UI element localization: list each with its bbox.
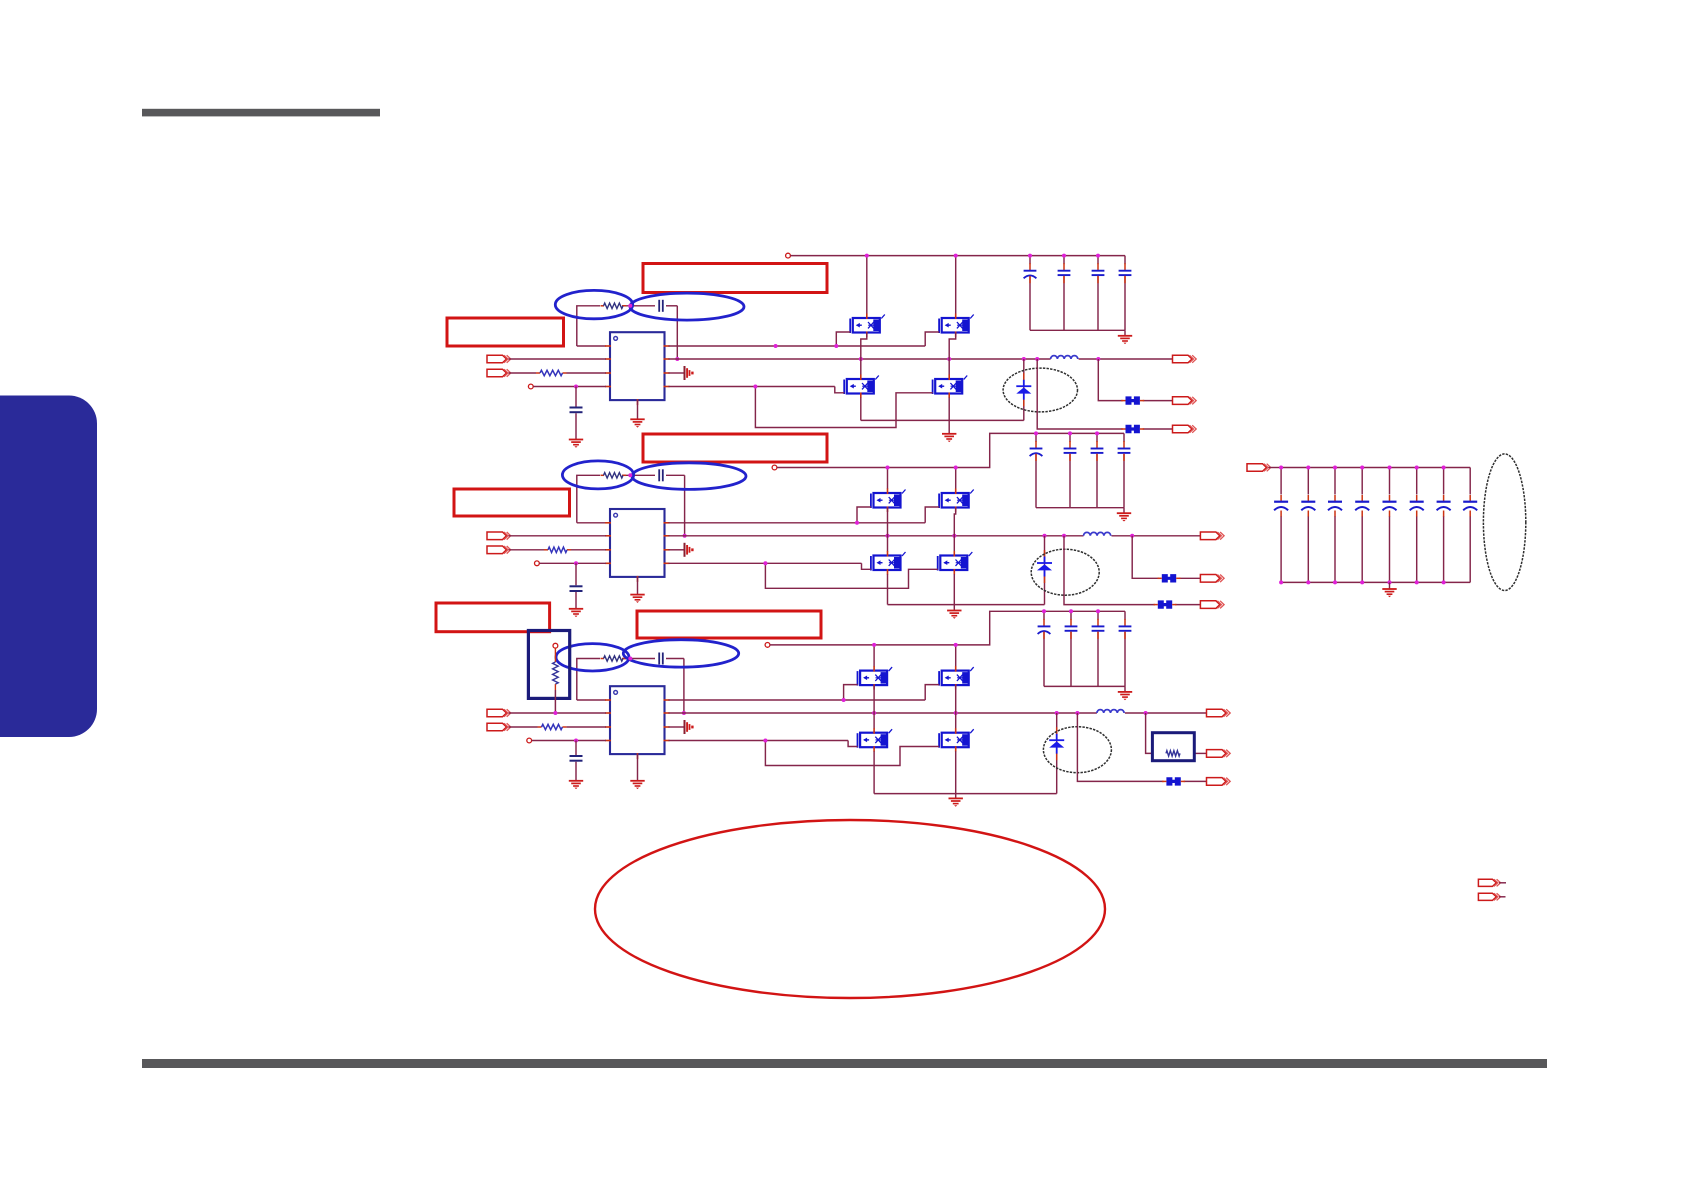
wire output 2 phase 2 (1132, 536, 1200, 579)
resistor R32 input (542, 724, 563, 729)
connector output 3 phase 1 (1173, 425, 1197, 433)
junction drain1 phase 2 (886, 466, 890, 470)
annotation red box phase 2 top (643, 434, 827, 462)
transistor Q11 high-side (850, 314, 885, 338)
junction bank top 1 (1279, 466, 1283, 470)
junction SW phase 3 (1075, 711, 1079, 715)
ground IC phase 2 (630, 595, 644, 603)
transistor Q33 low-side (858, 728, 893, 752)
wire soft-start phase 2 (539, 562, 606, 564)
diode D2 (1037, 550, 1052, 583)
capacitor C24 input (1064, 441, 1077, 461)
side tab (0, 396, 97, 738)
no-connect resistor top phase 3 (553, 643, 558, 648)
capacitor CB4 (1355, 495, 1369, 517)
transistor Q23 low-side (871, 551, 906, 575)
wire inductor to output phase 1 (1079, 358, 1173, 360)
diode D3 (1049, 727, 1064, 760)
black ellipse output bank (1483, 454, 1525, 591)
node VIN phase 1 (786, 253, 791, 258)
resistor R12 input (540, 370, 563, 375)
junction RC to pin phase 1 (675, 357, 679, 361)
capacitor C16 input (1119, 263, 1132, 283)
junction RC phase 1 (628, 304, 632, 308)
connector output 1 phase 3 (1207, 709, 1231, 717)
inductor L1 (1051, 356, 1078, 359)
junction soft-start phase 3 (574, 739, 578, 743)
transistor Q24 low-side (938, 551, 973, 575)
ground IC phase 3 (630, 781, 644, 789)
signal ground phase 1 (685, 366, 694, 380)
annotation red box phase 1 left (447, 318, 564, 346)
wire pin3 to ground phase 1 (669, 372, 684, 374)
capacitor CB2 (1301, 495, 1315, 517)
wire source-SW phase 2 (887, 508, 889, 552)
connector output 2 phase 1 (1173, 397, 1197, 405)
junction SW phase 2 (1062, 534, 1066, 538)
annotation red box phase 3 left (436, 603, 550, 632)
fuse F22 (1158, 574, 1181, 582)
fuse F13 (1121, 425, 1144, 433)
wire IC ground phase 3 (637, 754, 639, 781)
connector bottom B (1478, 893, 1500, 900)
capacitor C22 soft-start (570, 563, 583, 609)
wire PGND rail phase 3 (874, 713, 1057, 794)
connector bottom A (1478, 879, 1500, 886)
wire input cap bank phase 1 (1030, 256, 1125, 331)
junction RC to pin phase 2 (683, 534, 687, 538)
connector input B phase 3 (487, 723, 511, 731)
resistor R22 input (548, 547, 567, 552)
junction output phase 2 (1130, 534, 1134, 538)
capacitor CB6 (1410, 495, 1424, 517)
junction bank bottom 1 (1279, 580, 1283, 584)
fuse F12 (1121, 396, 1144, 404)
junction cap 1 phase 1 (1028, 254, 1032, 258)
wire drains phase 1 (867, 256, 956, 314)
junction RC phase 2 (628, 473, 632, 477)
junction SW phase 1 (1022, 357, 1026, 361)
capacitor C36 input (1119, 619, 1132, 639)
connector input A phase 1 (487, 355, 511, 363)
junction bank top 3 (1333, 466, 1337, 470)
junction bank bottom 7 (1442, 580, 1446, 584)
wire source-SW 2 phase 1 (949, 333, 956, 376)
junction gate1 phase 1 (834, 344, 838, 348)
wire bottom B (1499, 896, 1506, 898)
annotation red box phase 2 left (454, 489, 570, 516)
transistor Q12 high-side (939, 314, 974, 338)
resistor R35 pull phase 3 (553, 648, 559, 713)
blue ellipse capacitor phase 1 (630, 293, 744, 320)
wire input cap bank phase 3 (1044, 611, 1125, 686)
ground power stage phase 2 (947, 605, 961, 619)
wire soft-start phase 3 (532, 740, 606, 742)
junction drain1 phase 3 (872, 643, 876, 647)
capacitor CB1 (1274, 495, 1288, 517)
transistor Q32 high-side (939, 666, 974, 690)
junction gate drive low phase 2 (763, 561, 767, 565)
capacitor C21 compensation (659, 469, 663, 481)
connector output 1 phase 1 (1173, 355, 1197, 363)
junction bank bottom 2 (1306, 580, 1310, 584)
wire inductor to output phase 3 (1125, 712, 1207, 714)
black ellipse diode phase 2 (1031, 549, 1099, 595)
connector output 3 phase 2 (1200, 601, 1224, 609)
wire source-SW 2 phase 3 (955, 685, 957, 729)
capacitor C35 input (1092, 619, 1105, 639)
junction SW phase 1 (859, 357, 863, 361)
footer bar (142, 1059, 1547, 1068)
annotation navy box phase 3 (528, 631, 569, 699)
junction resistor phase 3 (553, 711, 557, 715)
ground power stage phase 3 (949, 794, 963, 807)
wire input cap bank phase 2 (1036, 433, 1124, 507)
junction bank top 4 (1360, 466, 1364, 470)
capacitor C15 input (1092, 263, 1105, 283)
annotation red box phase 3 top (637, 611, 821, 638)
wire gate drive low phase 1 (669, 387, 933, 428)
node VIN phase 2 (772, 465, 777, 470)
wire drains phase 3 (874, 645, 956, 667)
junction pin1 line phase 1 (774, 344, 778, 348)
junction cap 2 phase 2 (1068, 431, 1072, 435)
inductor L2 (1084, 532, 1111, 535)
wire gate drive high phase 2 (669, 507, 940, 523)
wire bank feed (1269, 467, 1282, 469)
capacitor CB5 (1383, 495, 1397, 517)
junction drain2 phase 3 (954, 643, 958, 647)
wire feedback RC phase 3 (577, 659, 684, 714)
resistor box R3s phase 3 (1152, 733, 1194, 761)
blue ellipse resistor phase 3 (556, 644, 629, 671)
junction soft-start phase 1 (574, 385, 578, 389)
wire PGND rail phase 2 (888, 536, 1045, 605)
blue ellipse capacitor phase 2 (632, 463, 746, 490)
transistor Q14 low-side (933, 375, 968, 399)
junction drain1 phase 1 (865, 254, 869, 258)
wire IC ground phase 1 (637, 400, 639, 419)
capacitor C26 input (1118, 441, 1131, 461)
junction SW phase 3 (954, 711, 958, 715)
junction gate drive low phase 1 (753, 385, 757, 389)
wire gate drive low phase 2 (669, 563, 938, 588)
fuse F23 (1154, 600, 1177, 608)
capacitor C31 compensation (659, 653, 663, 665)
junction gate1 phase 3 (842, 698, 846, 702)
junction RC to pin phase 3 (682, 711, 686, 715)
junction SW phase 1 (1035, 357, 1039, 361)
transistor Q34 low-side (939, 728, 974, 752)
wire input A phase 3 (509, 712, 607, 714)
transistor Q22 high-side (939, 489, 974, 513)
wire VIN rail phase 3 (770, 611, 1125, 645)
wire input B phase 1 (509, 372, 607, 374)
wire gate drive low phase 3 (669, 741, 940, 766)
junction SW phase 2 (952, 534, 956, 538)
no-connect circle phase 3 (527, 738, 532, 743)
junction cap 2 phase 1 (1062, 254, 1066, 258)
connector output 3 phase 3 (1207, 778, 1231, 786)
wire SW node phase 2 (669, 535, 1084, 537)
transistor Q13 low-side (844, 375, 879, 399)
fuse F33 (1162, 777, 1185, 785)
wire PGND rail phase 1 (861, 359, 1024, 420)
junction bank top 5 (1388, 466, 1392, 470)
junction drain2 phase 1 (954, 254, 958, 258)
black ellipse diode phase 3 (1043, 727, 1111, 773)
connector output bank (1247, 464, 1271, 472)
capacitor C23 input (1030, 441, 1043, 461)
junction soft-start phase 2 (574, 561, 578, 565)
junction bank bottom 3 (1333, 580, 1337, 584)
wire output 2 phase 1 (1098, 359, 1172, 401)
connector input A phase 2 (487, 532, 511, 540)
ground output bank (1382, 582, 1396, 597)
wire input A phase 1 (509, 358, 607, 360)
wire feedback RC phase 1 (577, 306, 678, 359)
junction cap 2 phase 3 (1069, 609, 1073, 613)
signal ground phase 2 (685, 543, 694, 557)
capacitor CB8 (1463, 495, 1477, 517)
ground input caps phase 1 (1118, 330, 1132, 344)
resistor R11 compensation (604, 303, 624, 308)
capacitor C33 input (1038, 619, 1051, 639)
op-amp controller U3 (605, 686, 670, 759)
wire input B phase 3 (509, 726, 607, 728)
wire gate drive high phase 3 (669, 685, 940, 700)
capacitor C11 compensation (659, 300, 663, 312)
junction output phase 3 (1144, 711, 1148, 715)
connector input A phase 3 (487, 709, 511, 717)
wire output 3 phase 1 (1037, 359, 1172, 429)
wire SW node phase 1 (669, 358, 1051, 360)
wire output 2 phase 3 (1146, 713, 1207, 753)
capacitor CB3 (1328, 495, 1342, 517)
header bar (142, 109, 380, 117)
capacitor C12 soft-start (570, 387, 583, 440)
resistor R31 compensation (604, 656, 624, 661)
wire soft-start phase 1 (533, 386, 606, 388)
wire output 3 phase 3 (1077, 713, 1206, 781)
inductor L3 (1097, 710, 1124, 713)
junction bank top 2 (1306, 466, 1310, 470)
junction SW phase 2 (886, 534, 890, 538)
connector output 2 phase 2 (1200, 575, 1224, 583)
junction cap 1 phase 3 (1042, 609, 1046, 613)
junction bank top 6 (1415, 466, 1419, 470)
capacitor C14 input (1058, 263, 1071, 283)
connector output 2 phase 3 (1207, 750, 1231, 758)
wire source-SW phase 1 (861, 333, 867, 376)
wire input A phase 2 (509, 535, 607, 537)
junction gate drive low phase 3 (763, 739, 767, 743)
junction SW phase 3 (872, 711, 876, 715)
wire feedback RC phase 2 (577, 475, 685, 536)
wire pin3 to ground phase 2 (669, 549, 684, 551)
junction gate1 phase 2 (855, 521, 859, 525)
wire bottom A (1499, 882, 1506, 884)
wire pin3 to ground phase 3 (669, 726, 684, 728)
junction bank top 7 (1442, 466, 1446, 470)
annotation red box phase 1 top (643, 264, 827, 293)
ground soft-start phase 3 (569, 781, 583, 789)
ground soft-start phase 2 (569, 609, 583, 617)
junction SW phase 1 (947, 357, 951, 361)
wire output cap bank (1281, 468, 1470, 583)
wire gate drive high phase 1 (669, 332, 940, 346)
blue ellipse resistor phase 2 (562, 461, 633, 489)
annotation red ellipse (595, 820, 1105, 998)
ground input caps phase 2 (1117, 508, 1131, 522)
transistor Q21 high-side (871, 489, 906, 513)
junction RC phase 3 (628, 657, 632, 661)
wire IC ground phase 2 (637, 577, 639, 595)
wire VIN rail phase 1 (791, 255, 1126, 257)
capacitor C34 input (1065, 619, 1078, 639)
capacitor C13 input (1024, 263, 1037, 283)
connector input B phase 1 (487, 369, 511, 377)
wire source-SW phase 3 (873, 685, 875, 729)
connector input B phase 2 (487, 546, 511, 554)
ground soft-start phase 1 (569, 440, 583, 448)
junction bank bottom 5 (1388, 580, 1392, 584)
junction bank bottom 6 (1415, 580, 1419, 584)
junction cap 1 phase 2 (1034, 431, 1038, 435)
node VIN phase 3 (765, 643, 770, 648)
op-amp controller U2 (605, 509, 670, 582)
resistor R21 compensation (604, 473, 624, 478)
wire source-SW 2 phase 2 (954, 508, 955, 552)
capacitor CB7 (1437, 495, 1451, 517)
capacitor C25 input (1091, 441, 1104, 461)
wire drains phase 2 (888, 468, 956, 490)
transistor Q31 high-side (858, 666, 893, 690)
black ellipse diode phase 1 (1003, 368, 1077, 412)
op-amp controller U1 (605, 332, 670, 405)
wire input B phase 2 (509, 549, 607, 551)
connector output 1 phase 2 (1200, 532, 1224, 540)
junction bank bottom 4 (1360, 580, 1364, 584)
ground input caps phase 3 (1118, 686, 1132, 700)
junction cap 3 phase 3 (1096, 609, 1100, 613)
junction output phase 1 (1096, 357, 1100, 361)
junction SW phase 3 (1055, 711, 1059, 715)
blue ellipse capacitor phase 3 (623, 640, 738, 667)
no-connect circle phase 1 (528, 384, 533, 389)
diode D1 (1016, 373, 1031, 406)
signal ground phase 3 (685, 720, 694, 734)
junction cap 3 phase 2 (1095, 431, 1099, 435)
no-connect circle phase 2 (535, 561, 540, 566)
wire VIN rail phase 2 (777, 433, 1124, 467)
junction cap 3 phase 1 (1096, 254, 1100, 258)
ground power stage phase 1 (942, 420, 956, 442)
junction drain2 phase 2 (954, 466, 958, 470)
capacitor C32 soft-start (570, 741, 583, 781)
junction SW phase 2 (1043, 534, 1047, 538)
blue ellipse resistor phase 1 (555, 290, 632, 318)
wire inductor to output phase 2 (1112, 535, 1201, 537)
wire output 3 phase 2 (1064, 536, 1200, 605)
ground IC phase 1 (630, 419, 644, 427)
wire SW node phase 3 (669, 712, 1097, 714)
